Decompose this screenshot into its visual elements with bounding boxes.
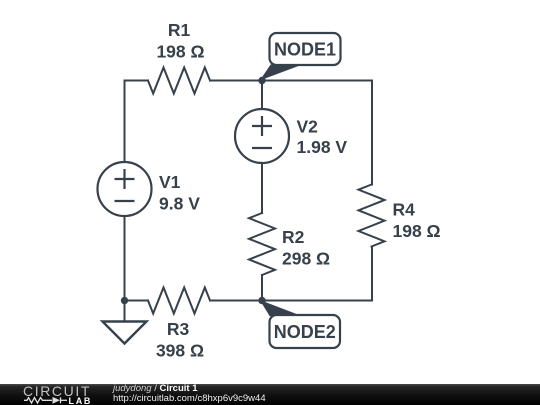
wire R1 right to NODE1 to right corner down to R4 top bbox=[210, 81, 372, 185]
svg-text:V2: V2 bbox=[297, 116, 319, 136]
svg-text:V1: V1 bbox=[159, 172, 181, 192]
wire V1 bottom to ground junction bbox=[124, 216, 126, 301]
svg-text:9.8 V: 9.8 V bbox=[159, 194, 200, 214]
resistor R1 bbox=[148, 68, 210, 94]
voltage source V2 bbox=[235, 109, 289, 163]
logo zigzag and diode bbox=[24, 397, 67, 403]
logo diode triangle bbox=[53, 397, 61, 404]
node NODE1 flag bbox=[258, 33, 340, 84]
svg-text:LAB: LAB bbox=[69, 396, 93, 405]
footer bar bbox=[0, 384, 540, 405]
svg-text:R3: R3 bbox=[167, 319, 190, 339]
svg-text:298 Ω: 298 Ω bbox=[282, 248, 330, 268]
resistor R2 bbox=[249, 213, 275, 275]
wire NODE1 down to V2 top bbox=[261, 81, 263, 110]
ground bbox=[103, 297, 147, 344]
svg-text:398 Ω: 398 Ω bbox=[156, 340, 204, 360]
svg-text:NODE2: NODE2 bbox=[274, 322, 336, 342]
svg-text:http://circuitlab.com/c8hxp6v9: http://circuitlab.com/c8hxp6v9c9w44 bbox=[113, 393, 266, 404]
wire R3 right to NODE2 to right corner up to R4 bottom bbox=[210, 247, 372, 301]
resistor R4 bbox=[359, 185, 385, 247]
voltage source V1 bbox=[98, 162, 152, 216]
svg-text:198 Ω: 198 Ω bbox=[393, 221, 441, 241]
svg-text:R4: R4 bbox=[393, 199, 416, 219]
svg-text:R2: R2 bbox=[282, 227, 305, 247]
wire V2 bottom to R2 top bbox=[261, 163, 263, 213]
wire R2 bottom to NODE2 bbox=[261, 275, 263, 301]
svg-text:1.98 V: 1.98 V bbox=[297, 137, 348, 157]
wire ground junction to R3 left bbox=[125, 300, 149, 302]
node NODE2 flag bbox=[258, 297, 340, 348]
svg-text:NODE1: NODE1 bbox=[274, 39, 336, 59]
svg-text:198 Ω: 198 Ω bbox=[156, 41, 204, 61]
svg-text:R1: R1 bbox=[168, 20, 191, 40]
wire top-left corner: V1 top to R1 left bbox=[125, 81, 149, 163]
resistor R3 bbox=[148, 288, 210, 314]
